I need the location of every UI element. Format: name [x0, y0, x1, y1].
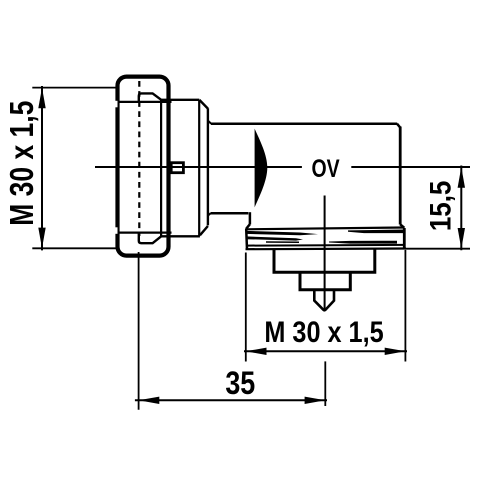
horizontal main centerline left segment [95, 166, 302, 168]
nut inner top line [119, 101, 172, 103]
body top edge [211, 123, 397, 126]
insert cap bump bottom profile [139, 232, 200, 243]
thread wedge small mid [266, 241, 299, 243]
thread flange bottom edge [246, 247, 407, 250]
chamfer into neck bottom edge [208, 213, 211, 215]
svg-text:M 30 x 1,5: M 30 x 1,5 [4, 101, 40, 226]
thread flange top edge [246, 228, 404, 230]
dimension 35: dimension line [135, 399, 327, 401]
dimension left: arrow up [38, 88, 45, 109]
dimension right: arrow down [458, 228, 465, 249]
nut inner bottom line [119, 232, 172, 234]
dimension bottom M30x1,5: left extension line [245, 253, 247, 362]
dimension left: bottom extension line [32, 247, 116, 249]
nut hex corner notch top (white break in left edge) [114, 101, 117, 108]
neck bottom edge [211, 212, 249, 215]
dimension right: dimension line [460, 166, 462, 251]
body top-right chamfer [397, 124, 400, 128]
spindle step 1 [274, 250, 375, 273]
shoulder shading meniscus [255, 129, 268, 208]
dimension 35: left extension line (nut centerline extended) [138, 252, 140, 410]
nut hex corner notch bottom [114, 227, 117, 234]
thread flange bottom inner line [246, 244, 404, 247]
tip centerline vertical [324, 196, 326, 311]
spindle step 2 [300, 274, 350, 290]
dimension right 15,5: bottom extension line [405, 248, 470, 250]
dimension right: arrow up [458, 167, 465, 188]
svg-text:35: 35 [225, 366, 255, 402]
thread wedge lower-right [329, 241, 397, 244]
horizontal main centerline right segment [351, 166, 470, 168]
insert cap face line inside nut [160, 100, 162, 237]
neck face vertical line [207, 108, 209, 225]
spindle tip with point [314, 291, 334, 310]
union nut outline [118, 77, 169, 256]
dimension 35: arrow left [139, 397, 160, 404]
dimension left: dimension line [41, 86, 43, 250]
centerline through pin [168, 166, 190, 168]
dimension 35: right extension line (tip centerline extended) [324, 361, 326, 406]
body bottom-right step chamfer [400, 224, 404, 228]
body right edge [399, 127, 402, 225]
dimension bottom: dimension line [244, 350, 407, 352]
dimension 35: arrow right [305, 397, 326, 404]
dimension bottom: arrow left [246, 348, 267, 355]
thread wedge mid-left [246, 236, 304, 240]
union nut vertical dashed centerline [138, 81, 140, 236]
thread wedge upper-right [348, 230, 404, 234]
dimension bottom: right extension line [404, 250, 406, 362]
mid flange right face line [198, 100, 200, 237]
dimension bottom: arrow right [385, 348, 406, 355]
dimension left M30x1,5: top extension line [32, 87, 116, 89]
valve pin [171, 163, 183, 173]
corner chamfer into thread flange [246, 224, 250, 229]
insert cap bump top profile [139, 93, 200, 102]
chamfer into body top [208, 121, 211, 124]
svg-text:OV: OV [312, 155, 340, 183]
thread wedge upper-left [246, 231, 319, 235]
thread flange left edge [245, 229, 248, 250]
chamfer bottom from neck to flange [200, 226, 208, 235]
neck bottom right corner vertical [249, 212, 252, 224]
svg-text:M 30 x 1,5: M 30 x 1,5 [264, 315, 383, 349]
svg-text:15,5: 15,5 [424, 181, 457, 231]
dimension left: arrow down [38, 228, 45, 249]
thread flange right edge [403, 228, 406, 249]
chamfer top from flange to neck [199, 100, 208, 109]
